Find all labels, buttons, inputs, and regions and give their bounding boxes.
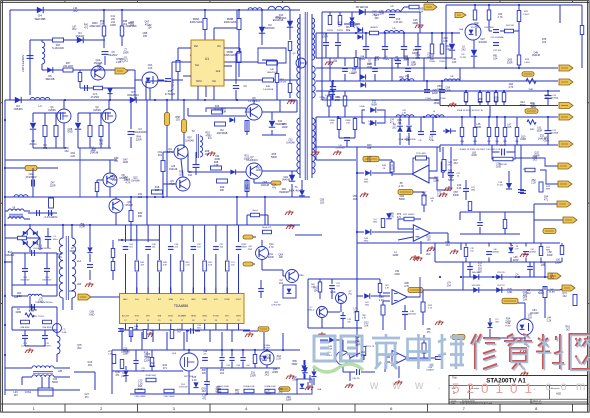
svg-text:TDA4856: TDA4856 <box>174 304 188 308</box>
svg-text:2.4K0: 2.4K0 <box>524 62 531 64</box>
svg-text:D4K: D4K <box>270 69 275 71</box>
svg-text:1K2: 1K2 <box>245 187 250 190</box>
svg-text:Title: Title <box>452 376 457 380</box>
svg-text:105: 105 <box>111 18 116 21</box>
svg-text:2.7K: 2.7K <box>428 308 433 310</box>
svg-text:R24 10K: R24 10K <box>506 25 515 27</box>
svg-text:471: 471 <box>397 122 402 125</box>
svg-text:100R: 100R <box>244 157 250 160</box>
svg-text:220R: 220R <box>250 375 256 378</box>
svg-text:330R: 330R <box>245 111 251 114</box>
svg-text:1K2: 1K2 <box>566 329 571 332</box>
svg-text:100R: 100R <box>15 311 21 314</box>
svg-text:D:\PCB2003\STA200TV-A02.ddb: D:\PCB2003\STA200TV-A02.ddb <box>460 402 493 405</box>
svg-text:1K2: 1K2 <box>279 282 284 285</box>
svg-text:560R: 560R <box>271 156 277 159</box>
svg-text:R4A 820K: R4A 820K <box>20 326 30 329</box>
svg-text:C16B: C16B <box>440 98 446 100</box>
svg-text:330R: 330R <box>69 250 75 253</box>
svg-text:1K2: 1K2 <box>446 48 451 51</box>
svg-text:105: 105 <box>235 392 240 395</box>
svg-text:1K2: 1K2 <box>202 390 207 393</box>
svg-text:560R: 560R <box>52 381 58 384</box>
svg-text:471: 471 <box>544 198 549 201</box>
svg-text:BLAN: BLAN <box>549 291 555 294</box>
svg-text:R3C: R3C <box>487 141 491 143</box>
svg-text:330R: 330R <box>547 254 553 257</box>
svg-text:C15: C15 <box>418 140 421 142</box>
svg-text:2K2: 2K2 <box>372 13 377 16</box>
svg-text:D11A: D11A <box>360 105 366 108</box>
svg-text:230-1206: 230-1206 <box>63 66 73 68</box>
svg-text:GND: GND <box>256 169 262 172</box>
svg-text:R10B: R10B <box>439 61 445 63</box>
svg-text:Vref: Vref <box>135 299 139 301</box>
svg-text:104: 104 <box>353 198 358 201</box>
svg-text:R7K 4.7K: R7K 4.7K <box>366 346 375 348</box>
svg-text:QR: QR <box>248 246 252 248</box>
svg-text:C1S: C1S <box>396 19 401 21</box>
svg-text:GND: GND <box>67 131 73 134</box>
svg-text:R27A: R27A <box>327 29 333 32</box>
svg-text:220R: 220R <box>513 259 519 262</box>
svg-text:DDE2004: DDE2004 <box>127 93 139 97</box>
svg-text:Gnd: Gnd <box>216 70 221 73</box>
svg-text:560R: 560R <box>538 292 544 295</box>
svg-text:5.4R: 5.4R <box>62 332 67 334</box>
svg-text:GND: GND <box>496 165 502 168</box>
svg-text:1.8K: 1.8K <box>148 68 153 70</box>
svg-text:2.2K: 2.2K <box>379 299 384 302</box>
svg-text:2.2K: 2.2K <box>112 179 117 182</box>
svg-text:1K2: 1K2 <box>220 372 225 375</box>
svg-text:104: 104 <box>338 24 343 27</box>
svg-text:4R8: 4R8 <box>43 147 48 150</box>
svg-text:471: 471 <box>202 398 207 401</box>
svg-text:471: 471 <box>124 179 129 182</box>
svg-text:560R: 560R <box>447 172 453 175</box>
svg-text:2.2K: 2.2K <box>546 319 551 322</box>
svg-text:3.9K: 3.9K <box>163 265 168 267</box>
svg-text:230E/1206: 230E/1206 <box>89 26 101 28</box>
svg-text:103: 103 <box>427 56 432 59</box>
svg-text:100R: 100R <box>79 226 85 229</box>
svg-text:GND: GND <box>394 273 400 276</box>
svg-text:16B: 16B <box>69 290 74 293</box>
svg-text:Rt/Ct: Rt/Ct <box>196 80 202 83</box>
svg-text:104: 104 <box>493 57 498 60</box>
svg-text:104/N&B: 104/N&B <box>528 252 536 254</box>
svg-text:2K2: 2K2 <box>265 374 270 377</box>
svg-text:105: 105 <box>390 167 395 170</box>
svg-text:47u: 47u <box>278 391 283 394</box>
svg-text:1K2: 1K2 <box>437 88 442 91</box>
svg-text:Ref: Ref <box>194 45 198 48</box>
svg-text:TL431: TL431 <box>497 185 504 187</box>
svg-text:Bead: Bead <box>253 210 259 212</box>
svg-text:10K: 10K <box>374 17 379 20</box>
svg-text:560R: 560R <box>520 104 526 107</box>
svg-text:105: 105 <box>320 202 325 205</box>
svg-text:104/N&B: 104/N&B <box>550 133 559 135</box>
svg-text:474/400V: 474/400V <box>25 175 36 179</box>
svg-text:560R: 560R <box>216 391 222 394</box>
svg-text:GND: GND <box>365 305 370 307</box>
svg-text:330R: 330R <box>434 102 440 105</box>
svg-text:103: 103 <box>130 24 135 27</box>
svg-text:471: 471 <box>115 374 120 377</box>
svg-text:220R: 220R <box>393 254 399 257</box>
svg-text:L1A: L1A <box>77 260 82 263</box>
svg-text:103: 103 <box>138 196 143 199</box>
svg-text:2N4007: 2N4007 <box>76 35 85 38</box>
svg-text:R4B 820K: R4B 820K <box>42 327 52 329</box>
svg-text:VHGN: VHGN <box>191 316 197 318</box>
svg-text:1.5K/2W: 1.5K/2W <box>278 82 286 84</box>
svg-text:4.7K: 4.7K <box>498 16 503 19</box>
svg-text:220R: 220R <box>378 13 384 16</box>
svg-text:220R: 220R <box>50 185 56 188</box>
svg-text:R1D: R1D <box>494 102 498 104</box>
svg-text:T7A: T7A <box>498 181 502 184</box>
svg-text:105: 105 <box>367 147 372 150</box>
svg-text:ENG2016: ENG2016 <box>273 19 284 22</box>
svg-text:ZD6 12V: ZD6 12V <box>497 285 505 287</box>
svg-text:4.7K: 4.7K <box>389 215 394 218</box>
svg-text:47u: 47u <box>203 354 206 356</box>
svg-text:100R: 100R <box>214 158 220 161</box>
svg-text:560R: 560R <box>399 198 405 201</box>
svg-text:471: 471 <box>390 121 395 124</box>
svg-text:2.2K: 2.2K <box>531 182 536 185</box>
svg-text:QP: QP <box>292 53 296 55</box>
svg-text:1K2: 1K2 <box>562 295 567 298</box>
svg-text:1N4148: 1N4148 <box>169 168 178 171</box>
svg-text:10K: 10K <box>364 324 369 327</box>
svg-text:103: 103 <box>470 251 473 253</box>
svg-text:104: 104 <box>314 289 319 292</box>
svg-text:47u/50V: 47u/50V <box>91 97 100 99</box>
svg-text:103: 103 <box>333 60 338 63</box>
svg-text:4.7K: 4.7K <box>399 185 404 188</box>
svg-text:Out: Out <box>212 80 216 83</box>
svg-text:SYNC: SYNC <box>224 299 230 301</box>
svg-text:104/GND: 104/GND <box>408 314 417 316</box>
svg-text:R7R: R7R <box>546 186 551 188</box>
svg-text:220R: 220R <box>144 359 150 362</box>
svg-text:100R: 100R <box>520 138 526 141</box>
svg-text:105: 105 <box>143 35 148 38</box>
svg-text:R3D: R3D <box>495 141 499 143</box>
svg-text:100R: 100R <box>282 126 288 129</box>
svg-text:2200u: 2200u <box>383 59 390 61</box>
svg-text:220R: 220R <box>555 261 561 264</box>
svg-text:105: 105 <box>353 310 358 313</box>
svg-text:2.2K: 2.2K <box>367 63 372 66</box>
svg-text:104: 104 <box>437 195 442 198</box>
svg-text:C7A: C7A <box>93 93 98 96</box>
svg-text:R37: R37 <box>66 63 71 65</box>
svg-text:8050-D: 8050-D <box>308 310 315 312</box>
svg-text:1N4148: 1N4148 <box>261 184 270 187</box>
svg-text:330R: 330R <box>292 379 298 382</box>
svg-text:R75 LM03: R75 LM03 <box>416 153 426 155</box>
svg-text:2K2: 2K2 <box>72 28 77 31</box>
svg-text:10K: 10K <box>97 66 102 69</box>
svg-text:D6a: D6a <box>346 30 351 32</box>
svg-text:220R: 220R <box>432 92 438 95</box>
svg-text:File:: File: <box>452 403 457 405</box>
svg-text:104/BLN: 104/BLN <box>426 370 434 372</box>
svg-text:47u: 47u <box>91 150 96 153</box>
svg-text:R34A: R34A <box>329 119 335 122</box>
svg-text:12B8: 12B8 <box>299 275 305 277</box>
svg-text:C15 104: C15 104 <box>394 22 403 24</box>
svg-text:4.7K: 4.7K <box>269 246 274 249</box>
svg-text:C32 104: C32 104 <box>493 50 502 52</box>
svg-text:LPS/4.3W: LPS/4.3W <box>271 305 280 307</box>
svg-text:1N4148: 1N4148 <box>286 141 295 144</box>
svg-text:1N4148: 1N4148 <box>282 179 291 182</box>
svg-text:5.6K: 5.6K <box>208 265 213 267</box>
svg-text:4.7K: 4.7K <box>125 182 130 185</box>
svg-text:R165A 4.00E: R165A 4.00E <box>243 385 255 388</box>
svg-text:560R: 560R <box>371 103 377 106</box>
svg-text:2K2: 2K2 <box>526 292 531 295</box>
svg-text:C48A: C48A <box>264 344 270 347</box>
svg-text:104: 104 <box>188 174 193 177</box>
svg-text:1N4148: 1N4148 <box>185 139 194 142</box>
svg-text:4.7K: 4.7K <box>404 285 409 288</box>
svg-text:ACC/VS: ACC/VS <box>122 315 129 318</box>
svg-text:47.5K/MF: 47.5K/MF <box>165 93 176 96</box>
svg-text:C5148: C5148 <box>125 204 133 207</box>
svg-text:4.7K: 4.7K <box>508 86 513 89</box>
svg-text:2K2: 2K2 <box>158 154 163 157</box>
svg-text:104: 104 <box>447 284 452 287</box>
svg-text:103: 103 <box>528 317 533 320</box>
svg-text:SH2S: SH2S <box>236 316 241 318</box>
svg-text:1K2: 1K2 <box>533 159 538 162</box>
svg-text:105: 105 <box>427 238 432 241</box>
svg-text:471: 471 <box>429 139 434 142</box>
svg-text:104/N&B: 104/N&B <box>491 252 499 254</box>
svg-text:1N4148: 1N4148 <box>121 350 130 353</box>
svg-text:220R: 220R <box>136 139 142 142</box>
svg-text:L2B: L2B <box>58 371 63 373</box>
svg-text:GND: GND <box>38 301 44 304</box>
svg-text:PWR: PWR <box>202 299 207 301</box>
svg-text:105: 105 <box>507 126 512 129</box>
svg-text:R162A 4.00E: R162A 4.00E <box>264 385 276 388</box>
svg-text:100R: 100R <box>536 129 542 132</box>
svg-text:104: 104 <box>375 59 380 62</box>
svg-text:100R: 100R <box>265 392 271 395</box>
svg-text:560R: 560R <box>448 179 454 182</box>
svg-text:2K2: 2K2 <box>64 150 69 153</box>
svg-text:10K: 10K <box>279 256 284 259</box>
svg-text:GND: GND <box>507 291 513 294</box>
svg-text:47u: 47u <box>478 264 483 267</box>
svg-text:VOUT: VOUT <box>236 299 242 301</box>
svg-text:100R: 100R <box>355 343 361 346</box>
svg-text:VTOSC: VTOSC <box>213 316 220 318</box>
svg-text:R4E: R4E <box>150 330 155 332</box>
svg-text:R1C: R1C <box>486 102 490 104</box>
svg-text:C06 3.3u/400V: C06 3.3u/400V <box>21 54 25 72</box>
svg-text:NPN: NPN <box>546 189 551 191</box>
svg-text:CON1: CON1 <box>25 392 32 394</box>
svg-text:w w w .: w w w . <box>369 380 446 392</box>
svg-text:L4: L4 <box>38 104 42 108</box>
svg-text:230K/1206: 230K/1206 <box>224 20 237 24</box>
svg-text:470: 470 <box>141 371 144 373</box>
svg-text:103: 103 <box>176 119 181 122</box>
svg-text:1N4148: 1N4148 <box>530 312 539 315</box>
svg-text:VCC: VCC <box>214 299 219 301</box>
svg-text:471: 471 <box>427 331 432 334</box>
svg-text:R4B: R4B <box>266 86 271 88</box>
svg-text:U1A: U1A <box>317 388 322 391</box>
svg-text:GND: GND <box>421 194 427 197</box>
svg-text:100R: 100R <box>412 22 418 25</box>
svg-text:104: 104 <box>147 27 152 30</box>
svg-text:5MQ: 5MQ <box>471 190 476 192</box>
svg-text:471: 471 <box>163 367 168 370</box>
svg-text:2K2: 2K2 <box>550 276 555 279</box>
svg-text:104/N&B: 104/N&B <box>550 98 559 100</box>
svg-text:5-1K/1206: 5-1K/1206 <box>52 47 64 50</box>
svg-text:220uF/400V: 220uF/400V <box>133 131 147 134</box>
svg-text:47u: 47u <box>208 137 213 140</box>
svg-text:330R: 330R <box>453 194 459 197</box>
svg-text:100R: 100R <box>123 51 129 54</box>
svg-text:2.2K: 2.2K <box>70 155 75 158</box>
svg-text:GND: GND <box>123 161 129 164</box>
svg-text:TL431: TL431 <box>460 57 467 59</box>
svg-text:C30 10: C30 10 <box>500 145 508 147</box>
svg-text:104: 104 <box>58 256 63 259</box>
svg-text:2K2: 2K2 <box>453 162 458 165</box>
svg-text:104: 104 <box>14 394 19 397</box>
svg-text:220R: 220R <box>272 371 278 374</box>
svg-text:1-3U/W&B: 1-3U/W&B <box>263 89 274 91</box>
svg-text:C4b 47u: C4b 47u <box>352 378 360 380</box>
svg-text:560R: 560R <box>292 363 298 366</box>
svg-text:2K2: 2K2 <box>416 57 421 60</box>
svg-text:C4A: C4A <box>134 325 139 328</box>
svg-text:C34 104/N&B: C34 104/N&B <box>491 37 504 39</box>
svg-text:105: 105 <box>478 270 483 273</box>
svg-text:L4: L4 <box>433 111 435 113</box>
svg-text:10K: 10K <box>545 97 550 100</box>
svg-text:0B34P5: 0B34P5 <box>370 27 379 29</box>
svg-text:100R: 100R <box>366 66 372 69</box>
svg-text:10R: 10R <box>346 123 350 125</box>
svg-text:47u: 47u <box>272 186 277 189</box>
svg-text:Drawn by:: Drawn by: <box>533 402 543 405</box>
svg-text:1K2: 1K2 <box>407 130 412 133</box>
svg-text:100R: 100R <box>220 110 226 113</box>
svg-text:2.2K: 2.2K <box>192 379 197 382</box>
svg-text:GND: GND <box>191 299 196 301</box>
svg-text:SEK30B: SEK30B <box>35 17 46 21</box>
svg-text:R34E 184Q: R34E 184Q <box>146 375 157 377</box>
svg-text:SH-RAMP: SH-RAMP <box>178 315 187 318</box>
svg-text:C6A: C6A <box>148 64 153 67</box>
svg-text:2.2K: 2.2K <box>138 388 143 391</box>
svg-text:GN4T: GN4T <box>241 247 247 249</box>
svg-text:100R: 100R <box>110 24 116 27</box>
svg-text:105: 105 <box>361 354 366 357</box>
svg-text:1K2: 1K2 <box>179 174 184 177</box>
svg-text:T2: T2 <box>191 129 195 133</box>
svg-text:2K2: 2K2 <box>461 48 466 51</box>
svg-text:1K2: 1K2 <box>88 364 93 367</box>
svg-text:BZX84C: BZX84C <box>265 26 275 30</box>
svg-text:VH40: VH40 <box>202 316 207 318</box>
svg-text:4.7K: 4.7K <box>443 40 448 43</box>
svg-text:1K2: 1K2 <box>123 23 128 26</box>
svg-text:560R: 560R <box>265 357 271 360</box>
svg-text:PNP: PNP <box>248 249 253 251</box>
svg-text:U1: U1 <box>205 57 209 61</box>
svg-text:20K/W&B: 20K/W&B <box>217 132 228 135</box>
svg-text:SEK30B: SEK30B <box>45 78 54 81</box>
svg-text:104: 104 <box>419 10 424 13</box>
svg-text:GND: GND <box>373 222 378 224</box>
svg-text:230K/1206: 230K/1206 <box>224 53 237 57</box>
svg-text:R51 100R/C: R51 100R/C <box>403 214 415 216</box>
svg-text:1N4148: 1N4148 <box>478 41 487 44</box>
svg-text:1K2: 1K2 <box>73 10 78 13</box>
svg-text:K2645: K2645 <box>93 109 101 112</box>
svg-text:2K2: 2K2 <box>446 244 451 247</box>
svg-text:10K: 10K <box>406 139 411 142</box>
svg-text:0.47u/400V: 0.47u/400V <box>45 216 58 219</box>
svg-text:105: 105 <box>99 142 104 145</box>
svg-text:AGC: AGC <box>123 298 128 301</box>
svg-text:103: 103 <box>367 159 372 162</box>
svg-text:ZVR1 270/7L: ZVR1 270/7L <box>32 316 45 318</box>
svg-text:1N4148: 1N4148 <box>131 179 140 182</box>
svg-text:ZD6 13V: ZD6 13V <box>497 272 505 274</box>
svg-text:10R: 10R <box>330 123 334 125</box>
svg-text:105: 105 <box>202 372 207 375</box>
svg-text:47u: 47u <box>85 396 90 399</box>
svg-text:2K2: 2K2 <box>77 347 82 350</box>
svg-text:10R: 10R <box>155 189 160 192</box>
svg-text:GND: GND <box>89 313 95 316</box>
svg-text:560R: 560R <box>150 365 156 368</box>
svg-text:4.7K: 4.7K <box>29 310 34 313</box>
svg-text:520101: 520101 <box>452 381 539 396</box>
svg-text:220R: 220R <box>268 256 274 259</box>
svg-text:HER208: HER208 <box>279 191 289 194</box>
svg-text:R27B: R27B <box>337 30 343 32</box>
svg-text:105: 105 <box>541 264 546 267</box>
svg-text:220R: 220R <box>322 36 328 39</box>
svg-text:330R: 330R <box>286 399 292 402</box>
svg-text:GBL06K: GBL06K <box>6 255 15 257</box>
svg-text:1.3K: 1.3K <box>213 164 218 167</box>
svg-text:22u/50V: 22u/50V <box>109 54 118 57</box>
svg-text:1N4148: 1N4148 <box>532 54 541 57</box>
svg-text:(T): (T) <box>63 329 66 331</box>
svg-text:C36Q GN4E: C36Q GN4E <box>134 396 146 398</box>
svg-text:D6+: D6+ <box>346 27 351 29</box>
svg-text:220R: 220R <box>433 179 439 182</box>
